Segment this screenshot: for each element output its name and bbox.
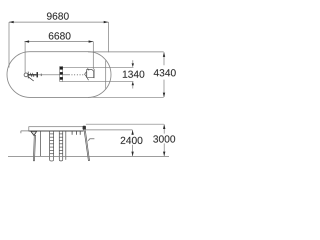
cable (solid) [38,74,60,76]
start assembly (tensioner / anchor) [28,72,41,81]
safety-zone stadium outline [7,52,111,98]
dimension text "4340" [154,69,176,76]
track beam [29,127,84,131]
post 1 [39,131,41,156]
dimension text "6680" [49,32,71,39]
dimension 6680 [24,42,93,74]
post 2 [65,131,67,160]
trolley / seat symbol [85,68,95,80]
dimension 1340 (arrows outside) [132,60,134,88]
dimension text "1340" [123,71,145,78]
dimension 2400 [85,130,133,156]
left leg [33,135,35,160]
right leg [84,131,89,161]
cable continues: solid then dotted [63,74,70,76]
dimension text "9680" [47,12,69,19]
beam bottom rail (dark) [29,130,84,132]
dimension 9680 [9,22,109,67]
cable stub left [21,131,29,133]
frame rails / 1340 extension lines [63,67,134,81]
gusset bracket under beam [31,131,37,135]
dimension 3000 [86,124,164,156]
ground line [8,155,169,157]
crossbar (plan) with dark clamps [60,67,63,82]
start post circle [24,73,28,77]
ladder B [59,131,62,161]
beam end cap [83,126,86,130]
flag bracket on right leg [90,138,95,140]
ladder A [50,131,54,161]
frame right edge [105,61,107,90]
hanger stubs under beam [72,131,80,135]
dimension text "2400" [121,137,143,144]
dimension text "3000" [153,135,175,142]
dimension 4340 extension lines [88,52,164,97]
